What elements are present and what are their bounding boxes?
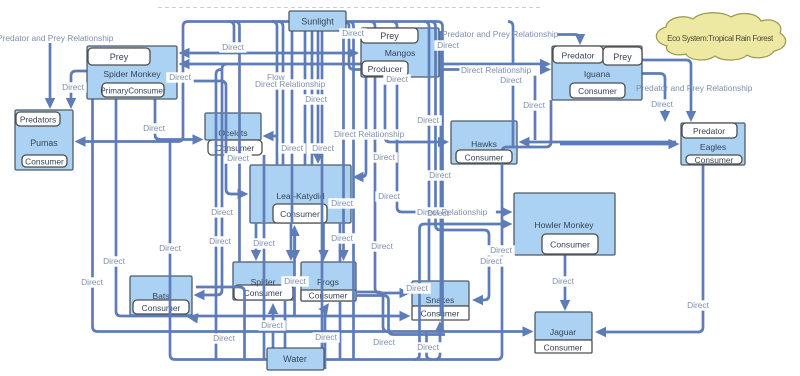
svg-text:Direct: Direct: [386, 74, 409, 84]
svg-text:Direct: Direct: [103, 256, 126, 266]
svg-text:Hawks: Hawks: [471, 139, 497, 149]
svg-text:Direct Relationship: Direct Relationship: [461, 65, 532, 75]
svg-text:Howler Monkey: Howler Monkey: [534, 220, 594, 230]
svg-text:Direct: Direct: [429, 170, 452, 180]
svg-text:Consumer: Consumer: [695, 155, 734, 165]
svg-text:Direct: Direct: [500, 75, 523, 85]
svg-text:Consumer: Consumer: [465, 153, 504, 163]
svg-text:Direct: Direct: [143, 123, 166, 133]
svg-text:Direct Relationship: Direct Relationship: [334, 129, 405, 139]
svg-text:Water: Water: [283, 354, 307, 364]
svg-text:Direct: Direct: [81, 277, 104, 287]
svg-text:Predators: Predators: [20, 115, 56, 125]
svg-text:Bats: Bats: [152, 291, 169, 301]
svg-text:Consumer: Consumer: [25, 157, 64, 167]
svg-text:Direct: Direct: [312, 143, 335, 153]
svg-text:Direct: Direct: [211, 207, 234, 217]
svg-text:Direct: Direct: [222, 42, 245, 52]
svg-text:Direct: Direct: [371, 241, 394, 251]
svg-text:Direct: Direct: [687, 300, 710, 310]
svg-text:Direct: Direct: [62, 82, 85, 92]
svg-text:Direct: Direct: [159, 243, 182, 253]
svg-text:Direct: Direct: [373, 337, 396, 347]
svg-text:Iguana: Iguana: [584, 69, 611, 79]
svg-text:Direct: Direct: [427, 208, 450, 218]
svg-text:Direct: Direct: [209, 236, 232, 246]
svg-text:Direct: Direct: [169, 72, 192, 82]
svg-text:Direct Relationship: Direct Relationship: [255, 79, 326, 89]
svg-text:Direct: Direct: [281, 143, 304, 153]
svg-text:Direct: Direct: [552, 276, 575, 286]
svg-text:Direct: Direct: [261, 320, 284, 330]
svg-text:Mangos: Mangos: [385, 48, 416, 58]
svg-text:Direct: Direct: [480, 256, 503, 266]
svg-text:Spider Monkey: Spider Monkey: [103, 69, 161, 79]
svg-text:Direct: Direct: [253, 238, 276, 248]
svg-text:Direct: Direct: [523, 100, 546, 110]
svg-text:Consumer: Consumer: [578, 86, 617, 96]
svg-text:Direct: Direct: [373, 152, 396, 162]
svg-text:Frogs: Frogs: [317, 277, 339, 287]
svg-text:Prey: Prey: [110, 52, 129, 62]
svg-text:Consumer: Consumer: [280, 209, 320, 219]
svg-text:Consumer: Consumer: [142, 303, 181, 313]
svg-text:Direct: Direct: [305, 94, 328, 104]
svg-text:Direct: Direct: [331, 233, 354, 243]
svg-text:PrimaryConsumer: PrimaryConsumer: [100, 87, 166, 96]
svg-text:Consumer: Consumer: [550, 240, 590, 250]
svg-text:Direct: Direct: [284, 276, 307, 286]
svg-text:Eco System:Tropical Rain Fores: Eco System:Tropical Rain Forest: [667, 34, 774, 43]
svg-text:Direct: Direct: [417, 115, 440, 125]
svg-text:Predator and Prey Relationship: Predator and Prey Relationship: [636, 83, 753, 93]
svg-text:Predator: Predator: [693, 126, 725, 136]
svg-text:Leaf-Katydid: Leaf-Katydid: [276, 191, 324, 201]
svg-text:Predator: Predator: [562, 51, 595, 61]
svg-text:Direct: Direct: [406, 283, 429, 293]
svg-text:Prey: Prey: [380, 31, 399, 41]
svg-text:Direct: Direct: [315, 332, 338, 342]
svg-text:Predator and Prey Relationship: Predator and Prey Relationship: [0, 33, 114, 43]
svg-text:Eagles: Eagles: [700, 142, 726, 152]
svg-text:Direct: Direct: [378, 191, 401, 201]
svg-text:Direct: Direct: [213, 333, 236, 343]
svg-text:Direct: Direct: [342, 28, 365, 38]
svg-text:Consumer: Consumer: [309, 291, 348, 301]
svg-text:Jaguar: Jaguar: [550, 327, 576, 337]
svg-text:Sunlight: Sunlight: [301, 17, 334, 27]
svg-text:Direct: Direct: [417, 342, 440, 352]
svg-text:Direct: Direct: [437, 40, 460, 50]
svg-text:Consumer: Consumer: [544, 343, 583, 353]
svg-text:Pumas: Pumas: [30, 138, 58, 148]
svg-text:Predator and Prey Relationship: Predator and Prey Relationship: [442, 29, 559, 39]
svg-text:Direct: Direct: [331, 198, 354, 208]
svg-text:Direct: Direct: [227, 153, 250, 163]
svg-text:Producer: Producer: [368, 64, 403, 74]
svg-text:Direct: Direct: [490, 245, 513, 255]
svg-text:Prey: Prey: [613, 52, 632, 62]
svg-text:Direct: Direct: [651, 99, 674, 109]
